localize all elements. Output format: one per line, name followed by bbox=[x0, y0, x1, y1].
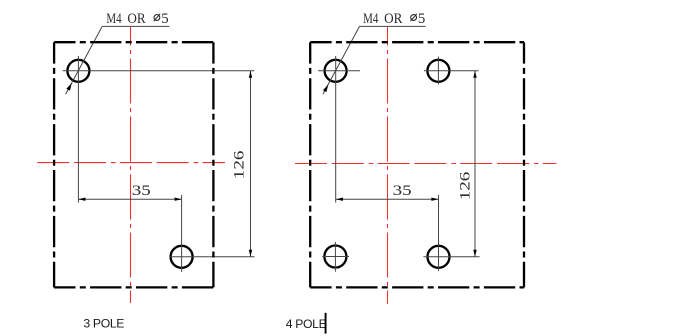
extension line horizontal from bottom hole to 126 dim bbox=[170, 256, 255, 258]
svg-text:OR: OR bbox=[384, 11, 402, 27]
arrowhead 35 left bbox=[78, 198, 85, 201]
svg-text:5: 5 bbox=[161, 11, 168, 27]
svg-text:M4: M4 bbox=[106, 11, 122, 27]
dimension line 126 (4-pole) bbox=[474, 71, 476, 257]
hole circle top-left 4-pole bbox=[325, 60, 347, 82]
hole circle bottom-left 4-pole bbox=[324, 246, 346, 268]
extension line vertical through bottom hole bbox=[181, 195, 183, 272]
extension line horizontal from bottom-right hole to 126 dim (4-pole) bbox=[423, 256, 479, 258]
body outline rect 3-pole: left edge bbox=[53, 42, 55, 287]
center mark horizontal top-left hole 4-pole bbox=[318, 70, 360, 72]
extension line vertical from top hole to 35 dim bbox=[77, 56, 79, 203]
body outline rect 4-pole: top edge bbox=[310, 41, 524, 43]
dimension line 126 (3-pole) bbox=[250, 71, 252, 257]
leader arrowhead (3-pole) bbox=[66, 83, 71, 91]
diameter symbol (3-pole) bbox=[154, 15, 160, 21]
body outline rect 3-pole: top edge bbox=[54, 41, 213, 43]
dimension line 35 (4-pole) bbox=[336, 198, 438, 200]
svg-text:3 POLE: 3 POLE bbox=[83, 317, 124, 331]
svg-text:35: 35 bbox=[393, 183, 412, 199]
center mark vertical bottom-left hole 4-pole bbox=[334, 242, 336, 272]
leader underline (4-pole) bbox=[360, 25, 426, 27]
leader line to top hole (3-pole) bbox=[66, 26, 103, 94]
horizontal centerline (red) 4-pole bbox=[295, 163, 557, 165]
center mark horizontal bottom-left hole 4-pole bbox=[322, 256, 349, 258]
extension line vertical through bottom-right hole (4-pole) bbox=[438, 195, 440, 271]
svg-text:5: 5 bbox=[418, 11, 425, 27]
center mark vertical top-right hole 4-pole bbox=[437, 57, 439, 85]
diameter symbol (4-pole) bbox=[411, 15, 417, 21]
hole circle bottom-right 3-pole bbox=[171, 246, 193, 268]
svg-text:M4: M4 bbox=[363, 11, 379, 27]
extension line horizontal from top-right hole to 126 dim (4-pole) bbox=[424, 70, 479, 72]
svg-text:126: 126 bbox=[231, 150, 247, 179]
svg-text:4 POLE: 4 POLE bbox=[286, 317, 327, 331]
body outline rect 4-pole: right edge bbox=[523, 42, 525, 287]
extension line horizontal from top hole to 126 dim bbox=[63, 70, 255, 72]
arrowhead 35 right bbox=[175, 198, 182, 201]
hole circle top-right 4-pole bbox=[427, 60, 449, 82]
text cursor after 4 POLE bbox=[325, 313, 327, 334]
leader line to top-left hole (4-pole) bbox=[323, 26, 360, 94]
leader arrowhead (4-pole) bbox=[323, 85, 328, 93]
arrowhead 35 right (4-pole) bbox=[431, 198, 438, 201]
body outline rect 4-pole: bottom edge bbox=[310, 286, 524, 288]
hole circle top-left 3-pole bbox=[67, 60, 89, 82]
leader underline (3-pole) bbox=[102, 25, 169, 27]
body outline rect 3-pole: bottom edge bbox=[54, 286, 213, 288]
arrowhead 126 top (4-pole) bbox=[473, 71, 476, 78]
body outline rect 4-pole: left edge bbox=[309, 42, 311, 287]
vertical centerline (red) 4-pole bbox=[387, 27, 389, 304]
arrowhead 126 bottom bbox=[249, 250, 252, 257]
svg-text:126: 126 bbox=[457, 171, 473, 200]
body outline rect 3-pole: right edge bbox=[212, 42, 214, 287]
extension line vertical from top-left hole to 35 dim (4-pole) bbox=[335, 56, 337, 203]
arrowhead 126 top bbox=[249, 71, 252, 78]
dimension line 35 (3-pole) bbox=[78, 198, 181, 200]
svg-text:OR: OR bbox=[127, 11, 145, 27]
arrowhead 126 bottom (4-pole) bbox=[473, 250, 476, 257]
vertical centerline (red) 3-pole bbox=[130, 27, 132, 303]
horizontal centerline (red) 3-pole bbox=[37, 162, 225, 164]
arrowhead 35 left (4-pole) bbox=[336, 198, 343, 201]
svg-text:35: 35 bbox=[132, 183, 151, 199]
hole circle bottom-right 4-pole bbox=[428, 246, 450, 268]
